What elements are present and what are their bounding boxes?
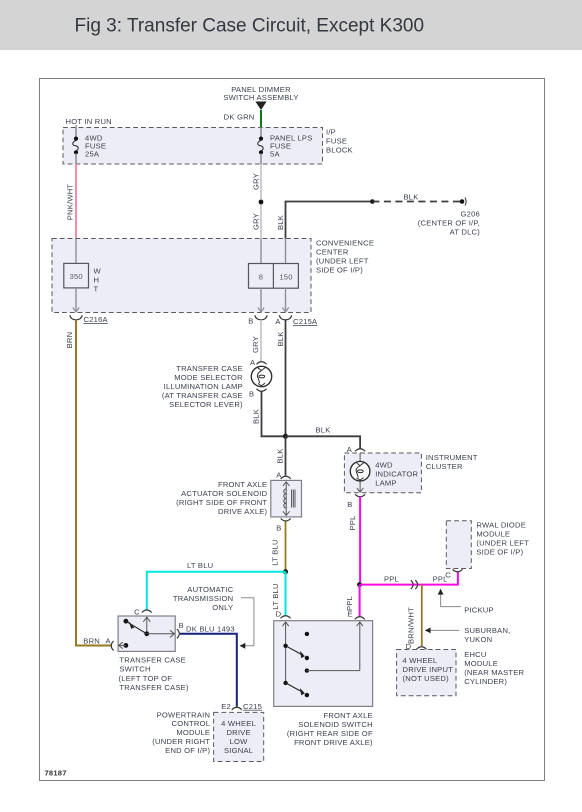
inline connector on PPL wire [411,580,418,589]
svg-text:LT BLU: LT BLU [271,583,280,609]
svg-text:1493: 1493 [217,625,235,634]
node LT BLU junction [283,569,288,574]
svg-text:FRONT DRIVE AXLE): FRONT DRIVE AXLE) [294,738,373,747]
svg-text:5A: 5A [270,149,280,158]
svg-text:LOW: LOW [230,737,249,746]
svg-text:(UNDER LEFT: (UNDER LEFT [476,539,529,548]
svg-text:LAMP: LAMP [375,479,397,488]
svg-text:LT BLU: LT BLU [271,539,280,565]
svg-text:ACTUATOR SOLENOID: ACTUATOR SOLENOID [181,489,267,498]
svg-text:(LEFT TOP OF: (LEFT TOP OF [119,674,173,683]
I/P fuse block [63,117,353,164]
fuse PANEL LPS FUSE 5A [258,128,313,165]
svg-text:DRIVE: DRIVE [226,728,250,737]
svg-text:END OF I/P): END OF I/P) [165,746,210,755]
svg-text:H: H [94,276,100,285]
svg-text:LT BLU: LT BLU [187,561,213,570]
svg-text:4 WHEEL: 4 WHEEL [221,719,256,728]
svg-text:A: A [250,358,256,367]
panel dimmer switch assembly connector [223,85,298,110]
svg-text:AT DLC): AT DLC) [450,228,481,237]
svg-text:D: D [276,609,282,618]
schematic frame [40,79,545,781]
svg-text:MODULE: MODULE [176,728,210,737]
svg-text:SIGNAL: SIGNAL [224,746,253,755]
svg-text:G206: G206 [461,210,480,219]
svg-text:PNK/WHT: PNK/WHT [66,184,75,221]
svg-text:(UNDER LEFT: (UNDER LEFT [316,257,369,266]
svg-text:C: C [445,571,451,580]
svg-text:C215A: C215A [293,317,318,326]
svg-text:(UNDER RIGHT: (UNDER RIGHT [152,737,210,746]
svg-text:DRIVE INPUT: DRIVE INPUT [403,665,454,674]
svg-text:BLK: BLK [252,409,261,424]
svg-text:Fig 3: Transfer Case Circuit,: Fig 3: Transfer Case Circuit, Except K30… [75,16,425,37]
svg-text:BLK: BLK [316,426,331,435]
EHCU module: 4 wheel drive input [397,642,525,696]
svg-text:AUTOMATIC: AUTOMATIC [187,585,233,594]
figure number 78187 [45,769,67,778]
wire LT BLU junction to front axle solenoid switch D [271,572,286,617]
svg-text:SIDE OF I/P): SIDE OF I/P) [316,266,363,275]
powertrain control module box: 4 wheel drive low signal [152,710,263,761]
svg-text:78187: 78187 [45,769,67,778]
svg-text:TRANSFER CASE): TRANSFER CASE) [119,683,189,692]
wire PPL lamp B to junction [348,497,360,585]
svg-text:(CENTER OF I/P,: (CENTER OF I/P, [418,219,480,228]
instrument cluster with 4WD indicator lamp [344,445,477,509]
svg-text:CONTROL: CONTROL [172,719,211,728]
svg-text:TRANSMISSION: TRANSMISSION [173,594,233,603]
svg-text:4 WHEEL: 4 WHEEL [403,656,438,665]
svg-text:25A: 25A [85,149,100,158]
wire GRY C215A-B to illumination lamp [251,320,261,362]
svg-text:PPL: PPL [384,575,399,584]
title bar [0,0,582,50]
svg-text:CLUSTER: CLUSTER [426,462,463,471]
svg-text:SWITCH ASSEMBLY: SWITCH ASSEMBLY [223,93,298,102]
svg-text:150: 150 [279,272,292,281]
svg-text:B: B [179,621,184,630]
note automatic transmission only [173,585,254,649]
svg-text:BLK: BLK [403,192,418,201]
svg-text:EHCU: EHCU [464,650,486,659]
connector C216A [70,315,109,324]
svg-text:HOT IN RUN: HOT IN RUN [66,117,112,126]
svg-text:MODE SELECTOR: MODE SELECTOR [174,373,243,382]
svg-text:INDICATOR: INDICATOR [375,470,418,479]
svg-text:GRY: GRY [252,213,261,230]
svg-text:W: W [94,267,102,276]
wire PPL junction to RWAL diode module [360,572,458,585]
front axle actuator solenoid [176,471,301,533]
note pickup [438,589,494,615]
ground G206 [418,198,480,237]
svg-text:FRONT AXLE: FRONT AXLE [323,711,372,720]
svg-text:C216A: C216A [84,315,109,324]
convenience center [52,239,374,313]
node PPL junction [357,582,362,587]
svg-text:B: B [248,317,253,326]
svg-text:FRONT AXLE: FRONT AXLE [218,480,267,489]
svg-text:FUSE: FUSE [326,137,347,146]
svg-text:C: C [134,608,140,617]
connector C215 pin E2 [221,702,262,711]
svg-text:ILLUMINATION LAMP: ILLUMINATION LAMP [164,382,243,391]
svg-text:BLOCK: BLOCK [326,146,353,155]
svg-text:BLK: BLK [276,215,285,230]
svg-text:(AT TRANSFER CASE: (AT TRANSFER CASE [162,391,243,400]
fuse 4WD FUSE 25A [73,125,106,164]
svg-text:B: B [249,390,254,399]
wire BLK convenience center to G206 [276,192,464,238]
svg-text:350: 350 [70,272,83,281]
svg-text:E: E [348,609,353,618]
svg-text:POWERTRAIN: POWERTRAIN [157,710,211,719]
svg-text:(NOT USED): (NOT USED) [403,674,450,683]
svg-text:BRN: BRN [65,332,74,349]
wire BRN/WHT connector to EHCU module [407,585,422,646]
transfer case switch [106,608,189,693]
svg-text:B: B [347,500,352,509]
svg-text:DK GRN: DK GRN [224,113,255,122]
wire GRY fuse to convenience center [252,164,262,239]
connector C215A pins B and A [248,315,318,326]
front axle solenoid switch [274,609,373,747]
svg-text:PPL: PPL [348,515,357,530]
fusible link 350 box [64,239,102,313]
wire BLK junction to instrument cluster [286,426,361,449]
svg-text:MODULE: MODULE [464,659,498,668]
svg-text:4WD: 4WD [375,461,393,470]
splice on GRY wire [259,200,264,205]
svg-text:PICKUP: PICKUP [464,606,494,615]
svg-text:GRY: GRY [251,336,260,353]
terminal 8 / 150 box [249,239,299,313]
svg-text:BLK: BLK [276,448,285,463]
svg-text:RWAL DIODE: RWAL DIODE [476,521,526,530]
svg-text:DK BLU: DK BLU [186,625,215,634]
svg-text:SELECTOR LEVER): SELECTOR LEVER) [169,400,243,409]
svg-text:I/P: I/P [326,128,336,137]
svg-text:CYLINDER): CYLINDER) [464,677,507,686]
transfer case mode selector illumination lamp [162,358,272,409]
RWAL diode module [445,521,529,580]
svg-text:YUKON: YUKON [464,635,492,644]
svg-text:B: B [276,524,281,533]
wire LT BLU (olive) solenoid B to junction [271,522,286,572]
svg-text:C215: C215 [243,702,262,711]
node BLK junction [283,434,288,439]
svg-text:BLK: BLK [276,331,285,346]
svg-text:T: T [94,285,99,294]
svg-text:A: A [275,317,281,326]
svg-text:TRANSFER CASE: TRANSFER CASE [176,364,243,373]
svg-text:BRN: BRN [83,637,100,646]
svg-text:CENTER: CENTER [316,248,349,257]
svg-text:GRY: GRY [252,173,261,190]
svg-text:DRIVE AXLE): DRIVE AXLE) [218,507,268,516]
svg-text:TRANSFER CASE: TRANSFER CASE [119,656,186,665]
wire BRN C216A to transfer case switch [65,320,112,646]
svg-text:(RIGHT SIDE OF FRONT: (RIGHT SIDE OF FRONT [176,498,267,507]
svg-text:E2: E2 [221,702,231,711]
svg-text:CONVENIENCE: CONVENIENCE [316,239,374,248]
wire PPL junction to front axle solenoid switch E [345,585,360,619]
wire LT BLU junction to transfer case switch C [147,561,286,610]
svg-text:A: A [106,637,112,646]
svg-text:SWITCH: SWITCH [119,665,150,674]
wire DK GRN from panel dimmer to fuse block [224,110,261,128]
wire BLK illumination lamp to junction [252,392,286,437]
svg-text:8: 8 [259,272,263,281]
svg-text:(NEAR MASTER: (NEAR MASTER [464,668,524,677]
svg-text:SIDE OF I/P): SIDE OF I/P) [476,548,523,557]
wire PNK/WHT fuse to convenience center [66,164,77,239]
svg-text:(RIGHT REAR SIDE OF: (RIGHT REAR SIDE OF [287,729,373,738]
wire BLK junction to front axle actuator solenoid [276,436,286,475]
svg-text:BRN/WHT: BRN/WHT [407,607,416,644]
svg-text:SUBURBAN,: SUBURBAN, [464,626,510,635]
svg-text:ONLY: ONLY [212,603,233,612]
svg-text:MODULE: MODULE [476,530,510,539]
wire BLK C215A-A down to junction [276,320,286,437]
svg-text:INSTRUMENT: INSTRUMENT [426,453,478,462]
wire DK BLU 1493 switch B to PCM [180,625,237,707]
note suburban yukon [425,626,511,644]
svg-text:SOLENOID SWITCH: SOLENOID SWITCH [298,720,373,729]
